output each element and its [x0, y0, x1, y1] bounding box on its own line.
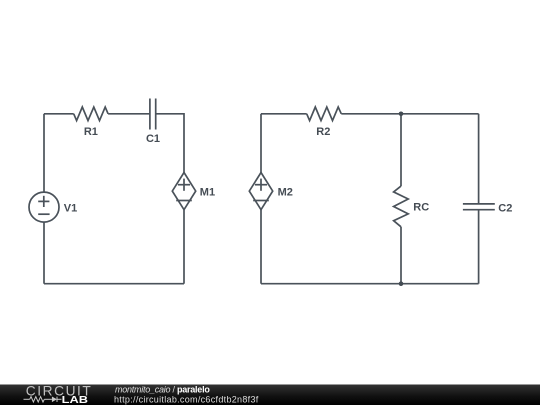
- wire: M2 top lead to top-left corner of right loop: [260, 114, 262, 173]
- wire: RC bottom lead: [400, 227, 402, 284]
- node A (junction dot top): [399, 112, 404, 117]
- wire: node B to bottom-left corner: [261, 283, 401, 285]
- wire: R1 to C1: [108, 113, 150, 115]
- source M2 (diamond dependent source): [249, 173, 272, 210]
- svg-text:C1: C1: [146, 133, 160, 145]
- capacitor C2: [463, 204, 495, 210]
- wire: top-left corner to R1: [44, 113, 74, 115]
- wire: bottom-right corner to node B: [401, 283, 479, 285]
- svg-text:M1: M1: [200, 187, 215, 199]
- wire: corner to R2: [261, 113, 307, 115]
- CircuitLab logo: mini schematic wire and resistor: [24, 397, 62, 402]
- footer bar: [0, 385, 540, 405]
- svg-text:V1: V1: [64, 202, 77, 214]
- source V1 (independent voltage source): [29, 192, 59, 222]
- wire: V1 top lead to top-left corner: [43, 114, 45, 192]
- resistor R2: [307, 107, 342, 121]
- wire: node A to top-right corner: [401, 113, 479, 115]
- wire: C1 to top-right corner down to M1: [156, 114, 184, 173]
- wire: C2 to bottom-right corner: [478, 210, 480, 284]
- svg-text:RC: RC: [413, 202, 429, 214]
- CircuitLab logo: diode triangle: [52, 397, 57, 403]
- svg-text:M2: M2: [278, 187, 293, 199]
- wire: R2 to node A: [341, 113, 401, 115]
- svg-text:R2: R2: [316, 126, 330, 138]
- wire: V1 bottom lead: [43, 222, 45, 284]
- svg-text:C2: C2: [498, 202, 512, 214]
- wire: right side down to C2: [478, 114, 480, 204]
- node B (junction dot bottom): [399, 281, 404, 286]
- resistor RC: [394, 186, 409, 227]
- source M1 (diamond dependent source): [172, 173, 195, 210]
- svg-text:montmito_caio / paralelo: montmito_caio / paralelo: [115, 385, 210, 395]
- resistor R1: [74, 107, 108, 121]
- svg-text:R1: R1: [84, 126, 98, 138]
- wire: bottom of left loop: [44, 283, 184, 285]
- svg-text:http://circuitlab.com/c6cfdtb2: http://circuitlab.com/c6cfdtb2n8f3f: [114, 394, 259, 404]
- wire: M1 bottom lead: [183, 210, 185, 284]
- wire: M2 bottom lead: [260, 210, 262, 284]
- wire: RC top lead: [400, 114, 402, 186]
- capacitor C1: [150, 99, 156, 130]
- svg-text:LAB: LAB: [62, 395, 88, 405]
